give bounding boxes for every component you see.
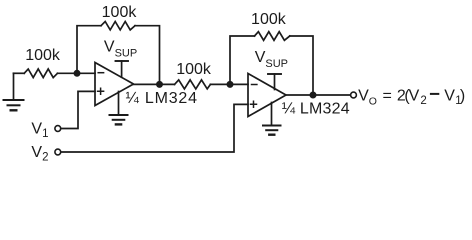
resistor R3 100k (interstage) — [175, 80, 211, 89]
op-amp U2 (1/4 LM324) — [248, 74, 286, 117]
wire U1 non-inverting input to V1 terminal — [61, 91, 95, 128]
svg-text:¼ LM324: ¼ LM324 — [282, 101, 350, 118]
node (junction U2 output / feedback) — [310, 92, 317, 99]
terminal V2 (open circle) — [55, 149, 61, 155]
node (junction U1 inverting input) — [74, 70, 81, 77]
node (junction U2 inverting input / feedback) — [227, 81, 234, 88]
resistor R2 100k (feedback of U1) — [101, 22, 135, 30]
wire U2 non-inverting input to V2 terminal — [61, 104, 248, 152]
ground (below U2) — [263, 103, 281, 135]
svg-text:100k: 100k — [176, 61, 212, 78]
wire R1 to U1 inverting input — [58, 72, 96, 74]
resistor R4 100k (feedback of U2) — [255, 32, 290, 41]
ground (below U1) — [110, 92, 128, 125]
wire R4 to output node — [290, 36, 313, 95]
node (junction U1 output / feedback) — [156, 81, 163, 88]
svg-text:100k: 100k — [25, 47, 61, 64]
terminal VO (open circle) — [351, 92, 357, 98]
ground (left, input ground) — [4, 73, 24, 110]
svg-text:¼ LM324: ¼ LM324 — [126, 90, 198, 107]
resistor R1 100k (input resistor) — [24, 69, 57, 78]
svg-text:100k: 100k — [102, 4, 138, 21]
wire feedback 2: drop at U2 input, top run, drop to U2 output — [230, 36, 255, 84]
wire ground to R1 — [14, 72, 25, 74]
wire U2 output to VO terminal — [286, 94, 350, 96]
power VSUP pin U2 — [268, 74, 281, 90]
wire feedback 1: riser, top run left, top run right, drop to output — [77, 26, 101, 74]
wire R3 to U2 — [210, 83, 248, 85]
minus sign in VO equation — [430, 93, 439, 95]
wire U1 output to U2 inverting input — [134, 83, 175, 85]
power VSUP pin U1 — [116, 61, 129, 77]
op-amp U1 (1/4 LM324) — [95, 63, 134, 106]
svg-text:100k: 100k — [251, 11, 287, 28]
terminal V1 (open circle) — [55, 126, 61, 132]
wire R2 to output node — [135, 26, 160, 85]
